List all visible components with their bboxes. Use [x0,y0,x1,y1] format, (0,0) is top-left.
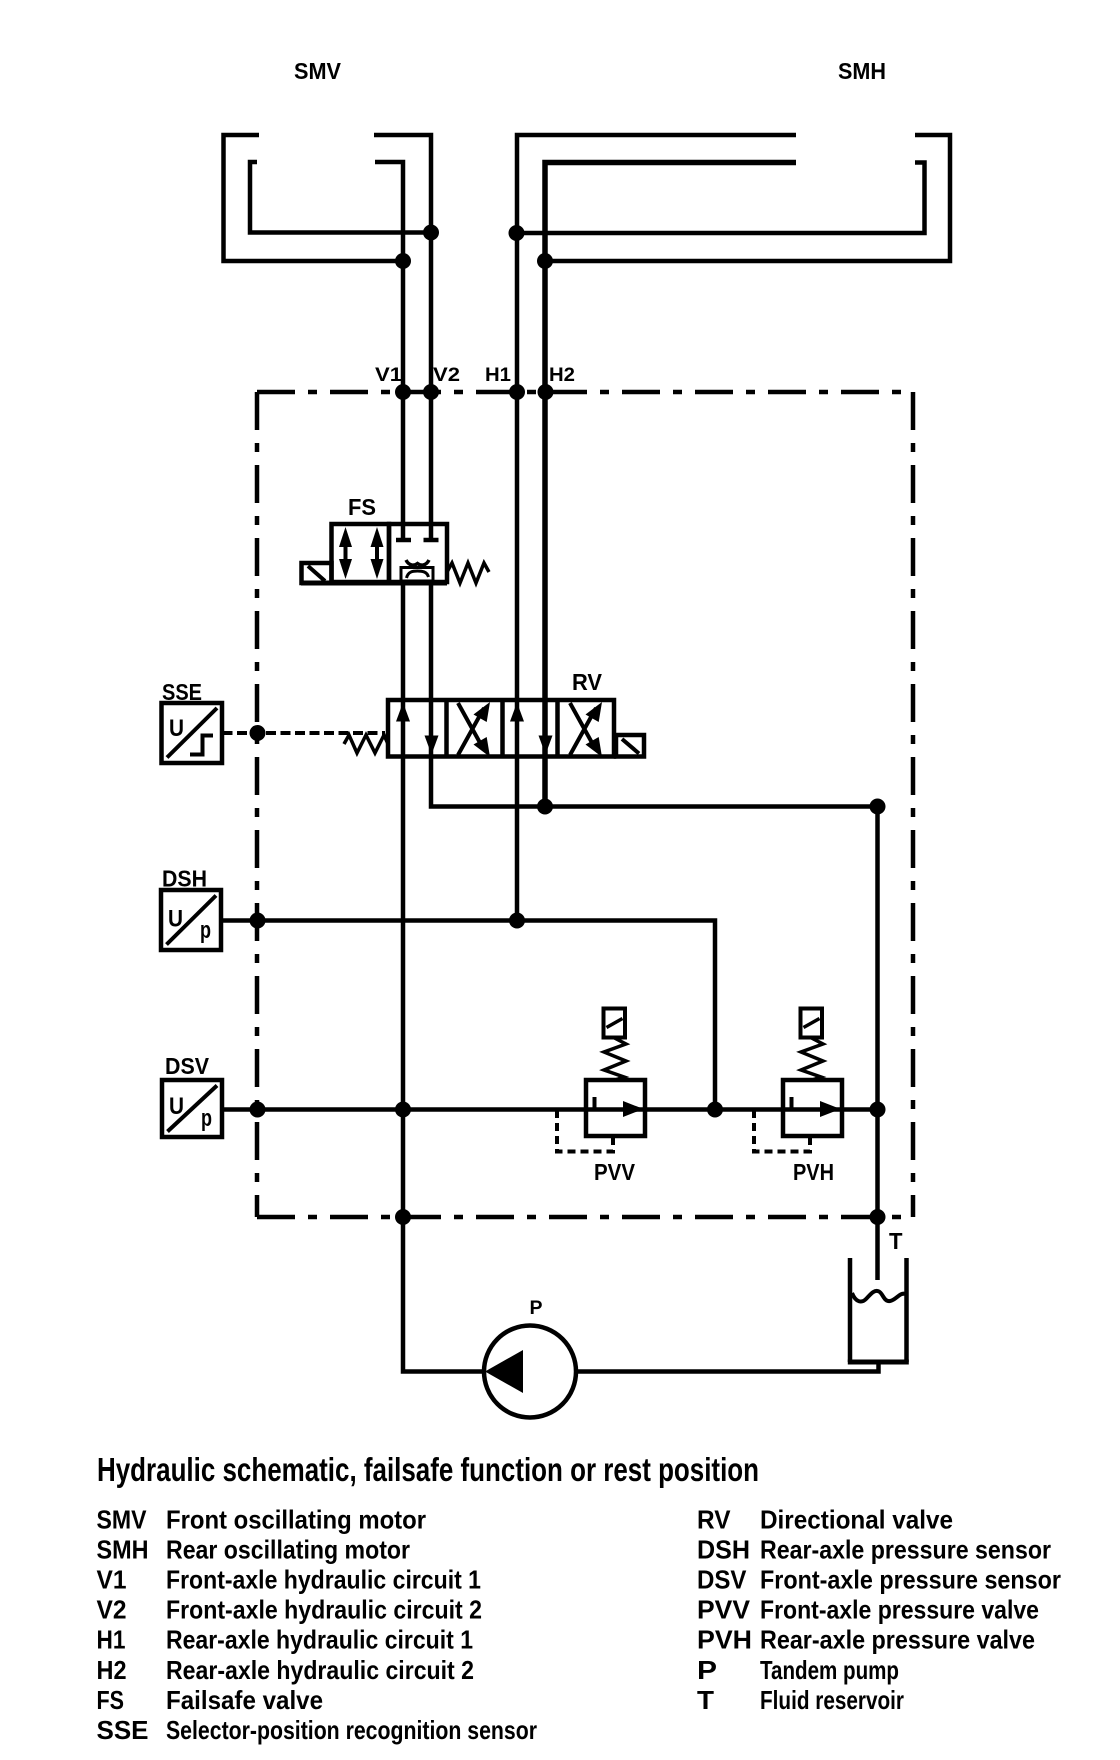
valve FS blocked port T-stub left [396,538,411,543]
svg-text:T: T [889,1228,903,1254]
svg-text:DSV: DSV [697,1565,747,1595]
node SMH inner loop / H1 [509,225,525,241]
node DSV rail joins V1 [395,1102,411,1118]
valve RV position1 arrowhead down on V2 [425,736,439,755]
valve PVV spring [604,1038,626,1080]
svg-text:Front-axle pressure valve: Front-axle pressure valve [760,1595,1039,1625]
reservoir T bottom [848,1360,909,1365]
node DSV at boundary [250,1102,266,1118]
oscillating motor SMV inner loop [250,162,431,233]
boundary box dash-dot bottom [257,1215,913,1220]
valve PVV body [586,1080,645,1136]
svg-text:SMH: SMH [838,58,886,84]
svg-text:FS: FS [348,494,376,520]
valve RV pilot spring left [344,735,388,753]
svg-text:SMH: SMH [97,1535,149,1565]
wire V2 upper (motor SMV to FS valve blocked port) [374,135,431,538]
valve FS return spring [447,563,489,583]
valve RV position3 arrowhead down on H2 [539,736,553,755]
svg-text:PVV: PVV [697,1595,751,1625]
valve RV divider 2 [500,700,505,757]
node DSH branch joins DSV rail [707,1102,723,1118]
svg-text:RV: RV [697,1505,731,1535]
valve RV crossed arrows position 4 [570,703,596,755]
svg-text:T: T [697,1685,714,1715]
oscillating motor SMH inner loop [517,163,925,234]
valve PVH pilot box [801,1009,823,1038]
node SMV outer loop / V1 [395,253,411,269]
sensor DSH box [161,890,221,950]
svg-text:Front-axle pressure sensor: Front-axle pressure sensor [760,1565,1061,1595]
valve PVH body [783,1080,842,1136]
wire V1 upper (motor SMV to FS valve blocked port) [375,162,403,538]
sensor SSE diagonal [167,708,217,758]
valve FS solenoid diagonal [308,566,325,581]
svg-text:V1: V1 [97,1565,127,1595]
node SMH outer loop / H2 [537,253,553,269]
svg-text:Front-axle hydraulic circuit 1: Front-axle hydraulic circuit 1 [166,1565,481,1595]
svg-text:P: P [697,1655,717,1685]
svg-text:V2: V2 [433,365,460,386]
valve RV divider 3 [555,700,560,757]
wire H1 (motor SMH through RV to DSH node) [517,135,796,921]
svg-text:U: U [169,1093,184,1120]
node V1 at bottom boundary [395,1209,411,1225]
wire H2 (motor SMH through RV to node on V2 run) [545,163,796,807]
svg-text:Selector-position recognition: Selector-position recognition sensor [166,1715,537,1745]
svg-text:H1: H1 [485,365,511,386]
valve PVH flow arrowhead [820,1101,841,1117]
wire DSV rail (sensor DSV through PVV and PVH to tank riser) [222,1107,878,1112]
svg-text:Failsafe valve: Failsafe valve [166,1685,323,1715]
valve FS left position square [332,524,390,582]
valve RV position1 arrowhead up on V1 [396,703,410,722]
oscillating motor SMH outer loop [545,135,950,261]
reservoir T left wall [848,1258,853,1362]
boundary box dash-dot top [257,390,913,395]
node V2 at boundary [423,384,439,400]
valve RV solenoid diagonal [622,739,639,754]
valve FS right position square [389,524,447,582]
node DSH joins H1 [509,913,525,929]
svg-text:DSH: DSH [162,866,207,892]
valve PVV internal tick [593,1097,597,1110]
valve PVH pilot dashed line [754,1110,810,1152]
svg-text:p: p [201,1105,212,1132]
boundary box dash-dot right [911,392,916,1217]
svg-text:Fluid reservoir: Fluid reservoir [760,1685,904,1715]
wire DSH branch (sensor DSH to node between PVV and PVH) [221,921,715,1110]
valve PVV pilot box diagonal [607,1019,623,1028]
valve FS left square arrowheads (double flow arrows) [339,527,352,547]
valve PVH spring [801,1038,823,1080]
svg-text:V2: V2 [97,1595,127,1625]
svg-text:Rear-axle pressure valve: Rear-axle pressure valve [760,1625,1035,1655]
node V2 run joins tank riser [870,799,886,815]
svg-text:P: P [530,1298,543,1319]
valve PVV pilot dashed line [557,1110,613,1152]
pump P circle [484,1326,576,1418]
svg-text:Rear oscillating motor: Rear oscillating motor [166,1535,410,1565]
svg-text:RV: RV [572,669,603,695]
svg-text:PVH: PVH [793,1159,834,1185]
svg-text:H2: H2 [549,365,575,386]
valve RV position2 crossed arrowheads [474,702,491,722]
svg-text:Rear-axle pressure sensor: Rear-axle pressure sensor [760,1535,1051,1565]
valve RV divider 1 [444,700,449,757]
valve FS seat rectangle [401,568,433,582]
node H2 at boundary [538,384,554,400]
valve FS left square flow arrow shafts [346,540,378,566]
valve RV solenoid box [616,735,644,757]
valve PVV pilot box [604,1009,626,1038]
valve RV crossed arrows position 2 [458,703,484,755]
valve PVH internal tick [790,1097,794,1110]
node H1 at boundary [509,384,525,400]
sensor DSV box [162,1080,222,1137]
reservoir T fluid level wave [852,1291,905,1302]
valve FS solenoid box [302,563,332,583]
svg-text:H1: H1 [97,1625,126,1655]
svg-text:Tandem pump: Tandem pump [760,1655,899,1685]
svg-text:H2: H2 [97,1655,127,1685]
svg-text:SMV: SMV [97,1505,148,1535]
node SSE at boundary [250,725,266,741]
svg-text:p: p [200,917,211,944]
valve FS blocked port T-stub right [424,538,439,543]
svg-text:SMV: SMV [294,58,342,84]
svg-text:Rear-axle hydraulic circuit 1: Rear-axle hydraulic circuit 1 [166,1625,473,1655]
svg-text:U: U [168,906,183,933]
svg-text:PVH: PVH [697,1625,752,1655]
node H2 joins V2 run [537,799,553,815]
svg-text:PVV: PVV [594,1159,636,1185]
svg-text:DSV: DSV [165,1053,210,1079]
sensor DSH diagonal [167,896,217,945]
svg-text:DSH: DSH [697,1535,750,1565]
svg-text:Hydraulic schematic, failsafe: Hydraulic schematic, failsafe function o… [97,1451,759,1488]
wire V2 lower (FS valve through RV to horizontal run) [431,582,878,807]
node DSV rail joins tank riser [870,1102,886,1118]
valve PVV flow arrowhead [623,1101,644,1117]
valve FS bottom bar [301,581,447,586]
sensor DSV diagonal [168,1086,218,1132]
node SMV inner loop / V2 [423,225,439,241]
node DSH at boundary [250,913,266,929]
pump P flow triangle [485,1350,523,1393]
valve RV position4 crossed arrowheads [586,702,603,722]
svg-text:Rear-axle hydraulic circuit 2: Rear-axle hydraulic circuit 2 [166,1655,474,1685]
valve RV position3 arrowhead up on H1 [510,703,524,722]
valve PVH pilot box diagonal [804,1019,820,1028]
sensor SSE step symbol [190,736,213,755]
valve RV pilot dashed line from SSE [223,731,386,735]
valve FS seat arcs inner [407,571,429,578]
svg-text:Front oscillating motor: Front oscillating motor [166,1505,426,1535]
wire V1 lower (FS valve to pump P, through DSV node) [403,582,486,1372]
valve RV body [388,700,614,757]
svg-text:U: U [169,715,184,742]
wire pump outlet to reservoir T [574,1362,879,1372]
oscillating motor SMV outer loop [224,135,404,261]
svg-text:V1: V1 [375,365,402,386]
boundary box dash-dot left [255,392,260,1217]
svg-text:SSE: SSE [162,679,202,705]
svg-text:Directional valve: Directional valve [760,1505,953,1535]
reservoir T right wall [904,1258,909,1362]
svg-text:Front-axle hydraulic circuit 2: Front-axle hydraulic circuit 2 [166,1595,482,1625]
valve FS seat arcs upper [406,560,429,565]
node V1 at boundary [395,384,411,400]
wire tank riser (node at border to reservoir T) [875,807,880,1281]
svg-text:SSE: SSE [97,1715,149,1745]
sensor SSE box [162,703,223,763]
node tank riser at bottom boundary [870,1209,886,1225]
svg-text:FS: FS [97,1685,125,1715]
